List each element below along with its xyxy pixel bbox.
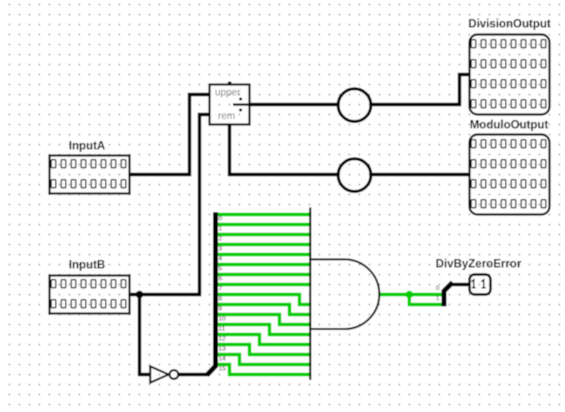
svg-text:9: 9 xyxy=(218,306,222,313)
wire splitter S1 bit 2 to AND gate input (green) xyxy=(217,233,312,236)
svg-text:11: 11 xyxy=(218,326,225,333)
wire divider remainder to circle C2 xyxy=(230,124,339,175)
wire splitter S1 bit 0 to AND gate input (green) xyxy=(217,213,312,216)
wire InputA to divider dividend input xyxy=(130,95,211,175)
svg-text:2: 2 xyxy=(218,236,222,243)
NOT gate G1 xyxy=(150,366,178,382)
input pin InputA (16-bit, value 0) xyxy=(50,156,130,194)
svg-text:6: 6 xyxy=(218,276,222,283)
svg-text:DivisionOutput: DivisionOutput xyxy=(468,18,551,30)
wire splitter S1 bit 12 to AND gate input (green) xyxy=(217,335,312,345)
wire splitter S1 bit 3 to AND gate input (green) xyxy=(217,243,312,246)
green junction on AND output wire xyxy=(406,291,414,299)
svg-text:DivByZeroError: DivByZeroError xyxy=(436,259,522,271)
output pin ModuloOutput (32-bit, value 0) xyxy=(470,135,550,215)
svg-text:InputB: InputB xyxy=(69,259,105,271)
wire circle C1 to DivisionOutput pin xyxy=(370,75,470,105)
svg-text:0: 0 xyxy=(218,216,222,223)
connector circle C2 on remainder wire xyxy=(338,159,371,192)
wire splitter S1 bit 13 to AND gate input (green) xyxy=(217,345,312,355)
divider U1 north pin stub xyxy=(228,82,231,85)
wire divider quotient to circle C1 xyxy=(249,103,339,106)
wire splitter S1 bit 7 to AND gate input (green) xyxy=(217,283,312,286)
wire splitter S1 bit 4 to AND gate input (green) xyxy=(217,253,312,256)
svg-text:1: 1 xyxy=(218,226,222,233)
wire splitter S1 bit 9 to AND gate input (green) xyxy=(217,305,312,315)
svg-text:upper: upper xyxy=(215,88,241,99)
svg-text:4: 4 xyxy=(218,256,222,263)
wire NOT gate output to splitter S1 xyxy=(179,373,209,376)
splitter S2 (2-bit combine) xyxy=(444,282,453,306)
connector circle C1 on quotient wire xyxy=(338,89,371,122)
divider U1 division symbol xyxy=(233,98,250,112)
wire splitter S2 to DivByZeroError pin xyxy=(450,283,471,286)
svg-text:13: 13 xyxy=(218,346,226,353)
svg-text:10: 10 xyxy=(218,316,226,323)
svg-text:InputA: InputA xyxy=(69,140,105,152)
svg-text:3: 3 xyxy=(218,246,222,253)
output pin DivisionOutput (32-bit, value 0) xyxy=(470,35,550,115)
wire junction to NOT gate input xyxy=(140,293,151,375)
wire splitter S1 bit 10 to AND gate input (green) xyxy=(217,315,312,325)
svg-text:ModuloOutput: ModuloOutput xyxy=(470,120,549,132)
splitter S1 bit labels 0-15 xyxy=(218,216,226,373)
wire splitter S1 bit 14 to AND gate input (green) xyxy=(217,355,312,365)
wire splitter S1 bit 6 to AND gate input (green) xyxy=(217,273,312,276)
svg-text:14: 14 xyxy=(218,356,226,363)
svg-text:7: 7 xyxy=(218,286,222,293)
svg-text:1: 1 xyxy=(436,295,440,302)
wire circle C2 to ModuloOutput pin xyxy=(370,173,470,176)
svg-text:rem: rem xyxy=(218,111,235,122)
input pin InputB (16-bit, value 0) xyxy=(50,276,130,314)
svg-text:8: 8 xyxy=(218,296,222,303)
svg-text:0: 0 xyxy=(436,285,440,292)
wire splitter S1 bit 11 to AND gate input (green) xyxy=(217,325,312,335)
wire InputB to divider divisor input xyxy=(130,115,211,295)
output pin DivByZeroError (2-bit, value 11) xyxy=(470,275,491,295)
wire branch to splitter S2 bit 1 (green, high) xyxy=(409,295,441,305)
wire AND gate output to splitter S2 bit 0 (green, high) xyxy=(379,293,442,296)
wire splitter S1 bit 8 to AND gate input (green) xyxy=(217,295,312,305)
divider U1 box xyxy=(210,85,250,125)
svg-text:5: 5 xyxy=(218,266,222,273)
wire splitter S1 bit 15 to AND gate input (green) xyxy=(217,365,312,375)
junction on InputB wire xyxy=(136,291,144,299)
wire splitter S1 bit 5 to AND gate input (green) xyxy=(217,263,312,266)
splitter S1 (16-bit fanout) xyxy=(207,212,216,375)
svg-text:15: 15 xyxy=(218,366,226,373)
AND gate G2 input face line xyxy=(309,207,311,380)
AND gate G2 body xyxy=(310,259,379,329)
wire splitter S1 bit 1 to AND gate input (green) xyxy=(217,223,312,226)
svg-text:12: 12 xyxy=(218,336,226,343)
